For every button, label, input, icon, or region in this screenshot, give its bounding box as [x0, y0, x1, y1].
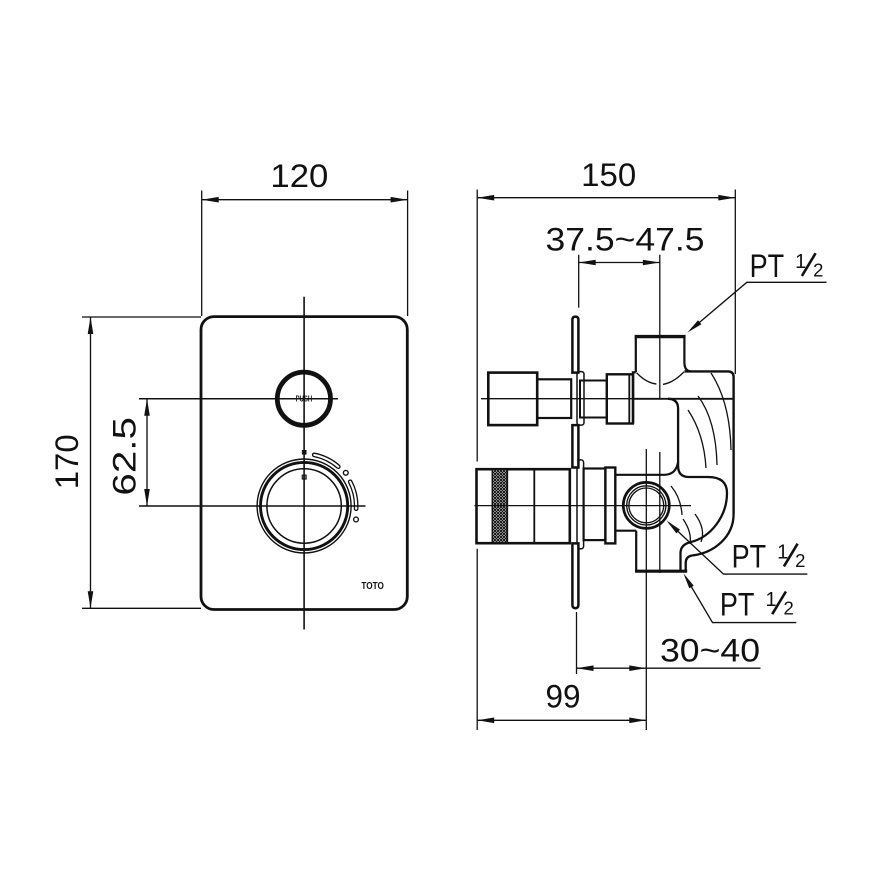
- knurled band: [492, 469, 507, 543]
- svg-text:120: 120: [270, 158, 328, 194]
- top collar behind flange: [577, 372, 584, 426]
- dim 150 extension left lower part: [476, 549, 478, 730]
- wall flange top segment: [572, 317, 578, 373]
- lower collar behind flange: [577, 460, 584, 549]
- body internal edge: [633, 398, 733, 400]
- dim 62.5 line: [146, 399, 148, 506]
- leader PT bottom arrow: [683, 573, 693, 588]
- body left edge: [633, 372, 635, 423]
- lower body boss bottom edge: [615, 530, 636, 532]
- index mark square open: [302, 475, 306, 479]
- dim 170 extension bottom: [82, 607, 201, 609]
- scale dot 1: [343, 470, 348, 475]
- centerline side outlet vertical: [645, 449, 647, 730]
- centerline top assembly horizontal: [481, 398, 637, 400]
- dim 30-40 line: [577, 667, 761, 669]
- top pipe throat fillet right: [663, 372, 684, 385]
- svg-text:150: 150: [581, 157, 636, 193]
- dim 37.5-47.5 extension left: [578, 255, 580, 308]
- leader PT bottom: [686, 577, 797, 623]
- svg-text:PT: PT: [750, 248, 785, 284]
- bottom outlet pipe left side: [635, 531, 637, 570]
- dim 120 extension left: [201, 191, 203, 317]
- outer bend wall: [686, 514, 734, 570]
- svg-text:PT: PT: [720, 586, 755, 622]
- dim 30-40 arrow right: [629, 665, 646, 671]
- flow line 2: [698, 396, 717, 465]
- leader PT top: [691, 282, 827, 330]
- flow line turn b: [695, 514, 703, 542]
- push button B1: [277, 372, 330, 425]
- top pipe throat fillet left: [637, 373, 657, 384]
- centerline knob horizontal: [139, 505, 366, 507]
- slab edge left of pipe: [632, 371, 636, 373]
- lower inlet block: [477, 469, 570, 543]
- dim 30-40 extension flange: [576, 612, 578, 674]
- wall flange bottom segment: [572, 543, 578, 608]
- dim 37.5-47.5 line: [579, 262, 660, 264]
- centerline top pipe vertical: [659, 255, 661, 398]
- leader PT middle arrow: [667, 521, 681, 534]
- centerline button horizontal: [139, 398, 338, 400]
- dim 30-40 arrow left: [577, 665, 594, 671]
- top check valve block: [488, 373, 537, 426]
- svg-text:TOTO: TOTO: [361, 580, 384, 592]
- lower block divider: [533, 469, 535, 543]
- flow line 1: [688, 410, 706, 468]
- top pipe section right of flange: [580, 381, 607, 418]
- dim 150 extension right: [734, 190, 736, 375]
- leader PT top arrow: [688, 320, 702, 332]
- index mark square filled: [302, 450, 307, 455]
- side outlet ring mid: [627, 486, 666, 525]
- lower pipe section right of flange: [584, 469, 606, 541]
- svg-text:2: 2: [783, 598, 793, 619]
- dim 120 line: [202, 199, 408, 201]
- bottom outlet cap edge: [635, 570, 687, 573]
- svg-text:PT: PT: [732, 539, 767, 575]
- top pipe cap edge: [635, 335, 686, 338]
- dim 170 arrow bottom: [88, 591, 94, 608]
- dim 120 extension right: [407, 191, 409, 317]
- knob K1 inner ring: [267, 469, 341, 543]
- svg-text:170: 170: [49, 434, 85, 489]
- dim 62.5 arrow bottom: [144, 489, 150, 506]
- lower union nut: [605, 468, 615, 544]
- dim 150 arrow left: [477, 195, 494, 201]
- body top slab edge: [684, 371, 733, 514]
- dim 37.5-47.5 arrow left: [579, 260, 596, 266]
- dim 120 arrow right: [391, 197, 408, 203]
- wall flange middle segment: [572, 425, 578, 467]
- flow line 3: [711, 373, 731, 450]
- plate P1: [201, 317, 407, 610]
- dim 150 extension left: [476, 190, 478, 462]
- svg-text:62.5: 62.5: [106, 417, 142, 496]
- svg-text:2: 2: [795, 550, 805, 571]
- knob K1 mid ring: [261, 462, 348, 549]
- side outlet ring outer: [623, 482, 669, 528]
- side outlet ring inner: [629, 488, 664, 523]
- dim 170 line: [90, 317, 92, 608]
- svg-text:99: 99: [546, 679, 581, 715]
- top union nut: [607, 374, 633, 423]
- svg-text:37.5~47.5: 37.5~47.5: [546, 221, 705, 257]
- dim 99 arrow right: [629, 718, 646, 724]
- inner channel wall: [668, 399, 727, 570]
- svg-text:2: 2: [813, 259, 823, 280]
- scale arc B: [349, 480, 358, 510]
- lower body boss top edge: [615, 462, 678, 475]
- svg-text:30~40: 30~40: [660, 632, 760, 668]
- flow line turn a: [683, 519, 690, 544]
- dim 99 line: [477, 719, 646, 721]
- top pipe section left of flange: [537, 379, 571, 418]
- dim 37.5-47.5 arrow right: [643, 260, 660, 266]
- leader PT middle: [669, 523, 807, 574]
- dim 120 arrow left: [202, 197, 219, 203]
- dim 99 arrow left: [477, 718, 494, 724]
- knob K1 outer ring: [257, 459, 351, 553]
- scale dot 2: [354, 517, 359, 522]
- dim 62.5 arrow top: [144, 399, 150, 416]
- dim 170 extension top: [82, 316, 201, 318]
- centerline bottom outlet vertical: [659, 452, 661, 573]
- top pipe (outlet to shower): [636, 338, 691, 372]
- flow line boss: [671, 486, 682, 515]
- top union nut inner line: [628, 374, 630, 423]
- scale arc A: [313, 453, 340, 468]
- centerline vertical left view: [303, 297, 305, 630]
- dim 150 line: [477, 197, 735, 199]
- centerline lower assembly horizontal: [475, 505, 692, 507]
- dim 170 arrow top: [88, 317, 94, 334]
- dim 150 arrow right: [718, 195, 735, 201]
